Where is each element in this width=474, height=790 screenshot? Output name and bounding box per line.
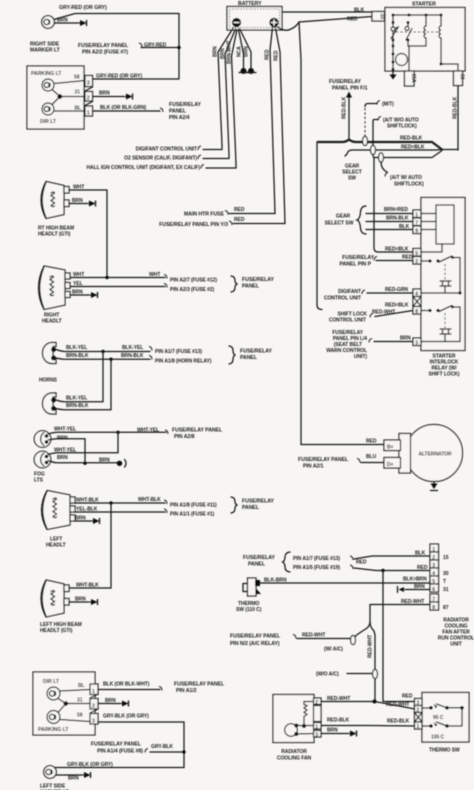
wire dir lamp to pin 1 <box>60 690 90 692</box>
wire relay pin 3 row <box>421 341 460 343</box>
wire RED-GRN to pin 4 <box>367 287 413 293</box>
wire YEL right headlight <box>70 281 167 288</box>
svg-text:1: 1 <box>92 689 95 695</box>
svg-text:GRY-BLK: GRY-BLK <box>151 744 173 750</box>
svg-text:BRN: BRN <box>99 458 110 464</box>
label starter interlock relay <box>428 354 459 378</box>
svg-text:30: 30 <box>443 571 449 577</box>
connector stub BRN <box>247 68 257 74</box>
svg-text:BRN-BLK: BRN-BLK <box>121 353 144 359</box>
wire WHT-BLK left headlight <box>75 497 167 504</box>
wire GRY-RED to pin A2/2 <box>141 43 179 49</box>
svg-text:BLK-BRN: BLK-BRN <box>264 578 287 584</box>
alternator <box>399 425 463 482</box>
svg-text:GRY-RED (OR GRY): GRY-RED (OR GRY) <box>96 74 142 80</box>
wire BRN-WHT battery neg 3 <box>227 30 238 164</box>
svg-text:BLU: BLU <box>366 454 377 460</box>
pin 3 connector <box>74 75 93 87</box>
label hall ign control unit <box>86 165 204 172</box>
svg-text:RED: RED <box>274 50 280 61</box>
svg-text:RED=BLK: RED=BLK <box>401 145 425 151</box>
label fuse/relay panel pin A2/1 <box>298 457 360 470</box>
node diamond junction <box>57 94 63 100</box>
wire GRY-BLK pin3 <box>55 714 184 768</box>
wire YEL-BLK left headlight <box>75 507 167 514</box>
svg-text:1: 1 <box>315 724 318 730</box>
thermo switch box <box>422 693 469 743</box>
wire to relay pin 8 via left drop <box>317 142 322 310</box>
battery positive terminal <box>269 18 278 27</box>
wire parking lamp to pin 3 <box>54 81 85 84</box>
svg-text:PIN A2/4: PIN A2/4 <box>169 115 190 121</box>
svg-text:O2 SENSOR (CALIF, DIGIFANT): O2 SENSOR (CALIF, DIGIFANT) <box>124 156 197 162</box>
svg-text:T: T <box>443 579 446 585</box>
svg-text:FUSE/RELAY: FUSE/RELAY <box>242 277 274 283</box>
svg-text:3: 3 <box>415 341 418 347</box>
svg-text:BRN-WHT: BRN-WHT <box>227 40 233 64</box>
label fuse/relay panel mid <box>243 555 275 568</box>
label fuse/relay panel horns <box>240 349 272 362</box>
svg-text:FUSE/RELAY PANEL: FUSE/RELAY PANEL <box>91 742 142 748</box>
ground fog lights <box>117 460 126 468</box>
label fuse/relay panel pin A2/2 <box>78 43 142 56</box>
svg-text:GRY-RED (OR GRY): GRY-RED (OR GRY) <box>59 5 107 11</box>
wire BLK pin1 to fuse panel A2/4 <box>93 105 164 112</box>
svg-text:PANEL PIN P: PANEL PIN P <box>339 262 371 268</box>
wire BLK-YEL horn2 <box>56 352 103 402</box>
lamp dir LT <box>42 103 54 115</box>
wire lamps common to pin 2 <box>52 90 85 105</box>
pin blank fan <box>314 706 322 722</box>
svg-text:PANEL: PANEL <box>242 505 260 511</box>
wire BRN left high beam <box>69 597 88 603</box>
wire RED battery pos to main htr fuse <box>265 28 276 214</box>
wire BRN left headlight <box>75 516 91 522</box>
wire BRN to O2 sensor <box>203 154 229 159</box>
wire GRY-RED pin3 <box>93 74 180 80</box>
svg-text:PIN A1/8 (HORN RELAY): PIN A1/8 (HORN RELAY) <box>155 359 212 365</box>
svg-text:LTS: LTS <box>34 478 44 484</box>
label shift lock control unit <box>329 312 373 324</box>
svg-text:BRN: BRN <box>57 455 68 461</box>
pin 2 fan <box>304 698 321 706</box>
wire starter dashed link <box>396 31 438 33</box>
connector oval W/O A/C <box>373 669 378 678</box>
svg-text:FUSE/RELAY: FUSE/RELAY <box>243 555 275 561</box>
box parking/dir light unit <box>27 66 84 129</box>
wire BRN battery neg 1 <box>213 28 234 146</box>
svg-text:RED-WHT: RED-WHT <box>327 696 350 702</box>
wire BRN-BLK to pin 7 <box>366 216 413 222</box>
svg-text:NCA: NCA <box>237 46 243 57</box>
wire curve to A/T w/ shiftlock <box>381 162 387 172</box>
svg-text:RED-GRN: RED-GRN <box>385 287 408 293</box>
motor starter <box>396 54 408 66</box>
pin 50 starter <box>454 71 465 86</box>
label fuse/relay panel headlights <box>242 277 274 290</box>
thermo switch 110C <box>243 578 261 596</box>
svg-text:RED: RED <box>234 207 245 213</box>
ground pin2 bottom <box>118 701 129 707</box>
wire RED-BLK starter 50 down <box>453 86 459 151</box>
contact solenoid main <box>391 27 399 39</box>
svg-text:1: 1 <box>87 111 90 117</box>
svg-text:BRN: BRN <box>105 698 116 704</box>
wire WHT rt high beam <box>69 185 107 278</box>
svg-text:BLK: BLK <box>399 224 410 230</box>
svg-text:RED=BLK: RED=BLK <box>385 247 409 253</box>
wire RED-WHT fan pin2 to thermo pin2 <box>321 696 415 709</box>
wire BRN battery neg 5 <box>240 29 252 69</box>
wire GRY-BLK to pin A1/4 <box>150 744 184 752</box>
svg-text:1: 1 <box>417 724 420 730</box>
svg-text:BRN: BRN <box>400 336 411 342</box>
svg-text:BRN: BRN <box>213 46 219 57</box>
radiator cooling fan box <box>273 695 314 743</box>
svg-text:6: 6 <box>432 587 435 593</box>
label fuse/relay panel pin L/4 seat belt <box>326 330 372 360</box>
svg-text:PIN A1/7 (FUSE #13): PIN A1/7 (FUSE #13) <box>155 349 202 355</box>
wire RED-WHT A/C relay <box>297 633 350 639</box>
svg-text:(W/O A/C): (W/O A/C) <box>316 672 339 678</box>
node diamond junction bottom <box>63 701 69 707</box>
svg-text:BLK (OR BLK-WHT): BLK (OR BLK-WHT) <box>103 682 150 688</box>
wire parking lamp to pin 3 <box>60 720 90 722</box>
label fuse/relay panel pin A1/4 <box>91 742 148 755</box>
pin 9 relay <box>413 226 436 235</box>
wire RED-WHT split branches <box>354 622 371 639</box>
svg-text:SHIFTLOCK): SHIFTLOCK) <box>394 182 424 188</box>
svg-text:WHT-BLK: WHT-BLK <box>138 497 161 503</box>
svg-text:15A: 15A <box>410 74 416 83</box>
wire RED to main htr fuse <box>229 207 275 214</box>
pin 7 relay <box>413 218 436 227</box>
label pin A1/5 fan <box>293 565 353 571</box>
svg-text:BRN: BRN <box>99 91 110 97</box>
pin 3 thermo <box>415 699 423 707</box>
svg-text:FUSE/RELAY: FUSE/RELAY <box>342 255 374 261</box>
pin 2 bottom connector <box>77 698 98 710</box>
svg-text:PIN A1/4 (FUSE #8): PIN A1/4 (FUSE #8) <box>97 749 143 755</box>
wire WHT right headlight <box>70 272 167 279</box>
svg-text:2: 2 <box>315 700 318 706</box>
ground rt high beam <box>85 201 96 207</box>
wire BRN-BLK horn2 <box>56 359 111 410</box>
ground control unit <box>398 587 405 593</box>
ground fan <box>346 731 357 737</box>
wire BRN marker light to ground <box>54 18 78 24</box>
wire BRN to pin 3 <box>374 336 413 342</box>
pin 4 relay <box>413 289 421 298</box>
brace fuse/relay panel left headlight <box>231 497 238 513</box>
svg-text:PANEL: PANEL <box>169 109 187 115</box>
svg-text:FUSE/RELAY PANEL: FUSE/RELAY PANEL <box>230 634 281 640</box>
svg-text:PIN A2/3 (FUSE #2): PIN A2/3 (FUSE #2) <box>170 287 215 293</box>
ground starter <box>390 71 397 80</box>
svg-text:RADIATOR: RADIATOR <box>281 749 307 755</box>
pin 1 connector <box>75 106 93 117</box>
svg-text:95 C: 95 C <box>433 715 444 721</box>
pin 1 fan <box>314 723 322 731</box>
wire BRN left marker to ground <box>56 775 82 782</box>
wire RED-WHT slant to pin 8 <box>372 310 413 317</box>
connector oval A/T w/o <box>371 145 376 154</box>
svg-text:PANEL PIN F/1: PANEL PIN F/1 <box>332 86 368 92</box>
svg-text:3: 3 <box>87 81 90 87</box>
svg-text:BLK=BRN: BLK=BRN <box>403 577 427 583</box>
label fuse/relay panel pin F/1 <box>329 79 368 92</box>
svg-text:HEADLT: HEADLT <box>46 543 66 549</box>
label fuse/relay panel pin Y/3 <box>159 221 232 228</box>
svg-text:PANEL: PANEL <box>242 284 260 290</box>
svg-text:RED=BLK: RED=BLK <box>385 303 409 309</box>
svg-text:DIR LT: DIR LT <box>43 679 60 685</box>
svg-text:GRY-BLK (OR GRY): GRY-BLK (OR GRY) <box>67 762 113 768</box>
relay inner gear switch box <box>436 205 454 244</box>
relay coil 2 <box>440 313 451 342</box>
connector oval W/ A/C <box>351 635 356 644</box>
svg-text:HEADLT (GTI): HEADLT (GTI) <box>38 232 71 238</box>
label fuse/relay panel pin P <box>339 255 377 268</box>
svg-text:(W/ A/C): (W/ A/C) <box>324 647 343 653</box>
svg-text:31: 31 <box>77 698 83 704</box>
thermo contact 95C <box>422 704 464 726</box>
svg-text:FUSE/RELAY PANEL: FUSE/RELAY PANEL <box>174 682 225 688</box>
svg-text:RED: RED <box>234 217 245 223</box>
connector oval M/T <box>363 136 368 145</box>
wire BRN to digifant <box>203 145 222 150</box>
svg-text:YEL-BLK: YEL-BLK <box>76 507 98 513</box>
svg-text:RED-BLK: RED-BLK <box>327 718 350 724</box>
svg-text:31: 31 <box>75 90 81 96</box>
svg-text:DIR LT: DIR LT <box>40 119 57 125</box>
svg-text:RED: RED <box>402 694 413 700</box>
svg-text:MAIN HTR FUSE: MAIN HTR FUSE <box>184 212 225 218</box>
svg-text:FUSE/RELAY: FUSE/RELAY <box>169 102 201 108</box>
horn 1 <box>43 343 57 364</box>
terminal D+ <box>384 458 401 469</box>
pin 1 thermo <box>415 722 423 730</box>
svg-text:(M/T): (M/T) <box>382 102 394 108</box>
wire starter top bus <box>393 14 443 17</box>
svg-text:GRY-BLK (OR GRY): GRY-BLK (OR GRY) <box>103 714 149 720</box>
svg-text:2: 2 <box>87 96 90 102</box>
svg-text:RED-BLK: RED-BLK <box>400 136 423 142</box>
lamp right side marker LT <box>42 16 55 29</box>
svg-text:15: 15 <box>443 555 449 561</box>
svg-text:PIN A2/8: PIN A2/8 <box>174 434 195 440</box>
svg-text:THERMO SW: THERMO SW <box>429 748 460 754</box>
wire lamps common to pin 2 <box>58 699 90 713</box>
label (M/T) <box>377 101 394 108</box>
wire RED battery to alternator B+ <box>299 22 384 445</box>
wire BRN rt high beam to ground <box>69 198 87 204</box>
svg-text:RED-BLK: RED-BLK <box>387 719 410 725</box>
relay contact row 2 <box>421 306 460 342</box>
svg-text:2: 2 <box>92 704 95 710</box>
svg-text:PARKING LT: PARKING LT <box>38 727 69 733</box>
svg-text:HEADLT: HEADLT <box>42 319 62 325</box>
svg-text:SELECT SW: SELECT SW <box>325 221 354 227</box>
svg-text:WHT: WHT <box>73 272 84 278</box>
label fuse/relay panel pin A2/4 <box>169 102 201 121</box>
svg-text:FUSE/RELAY: FUSE/RELAY <box>240 349 272 355</box>
label main htr fuse <box>184 211 228 218</box>
svg-text:PIN A2/7 (FUSE #12): PIN A2/7 (FUSE #12) <box>170 278 217 284</box>
svg-text:BRN-BLK: BRN-BLK <box>386 216 409 222</box>
svg-text:PIN A1/7 (FUSE #13): PIN A1/7 (FUSE #13) <box>293 556 340 562</box>
wire BRN-BLK horn1 <box>56 353 152 360</box>
wire RED-BLK fan pin1 to thermo pin1 <box>321 718 415 727</box>
pin 15A starter <box>405 46 417 86</box>
wire RED-BLK bus 1 <box>317 136 442 150</box>
label fuse/relay panel pin N/2 <box>230 634 296 648</box>
wire RED battery pos to pin Y/3 <box>274 28 286 224</box>
horn 2 <box>43 393 57 414</box>
node junction WHT-BLK <box>109 501 112 504</box>
svg-text:RED: RED <box>265 49 271 60</box>
pin 3 bottom connector <box>77 713 98 725</box>
svg-text:PIN A1/8 (FUSE #11): PIN A1/8 (FUSE #11) <box>170 503 217 509</box>
wire BRN pin2 to ground <box>98 698 120 704</box>
svg-text:PIN A1/2: PIN A1/2 <box>176 688 197 694</box>
svg-text:3: 3 <box>92 719 95 725</box>
wire BRN-WHT to hall ign <box>206 163 236 168</box>
svg-text:BLK (OR BLK-GRN): BLK (OR BLK-GRN) <box>100 105 147 111</box>
svg-text:PIN A1/5 (FUSE #19): PIN A1/5 (FUSE #19) <box>293 565 340 571</box>
pin 2 connector <box>75 90 93 102</box>
wire BRN-RED to pin 1 <box>366 207 413 214</box>
coil hold-in winding <box>439 15 458 71</box>
svg-text:BLK-YEL: BLK-YEL <box>122 345 143 351</box>
svg-text:RED-WHT: RED-WHT <box>302 633 325 639</box>
svg-text:BRN: BRN <box>72 198 83 204</box>
wire WHT-YEL fog2 <box>48 432 118 454</box>
pin 5 relay <box>413 244 442 257</box>
wire dashed M/T drop <box>365 104 377 137</box>
ground left headlight <box>89 518 100 524</box>
label O2 sensor <box>124 155 201 162</box>
svg-text:FUSE/RELAY: FUSE/RELAY <box>242 499 274 505</box>
svg-text:YEL: YEL <box>73 281 83 287</box>
wire BLK to pin 9 <box>366 224 413 230</box>
svg-text:RED: RED <box>347 17 358 23</box>
svg-text:BRN: BRN <box>327 728 338 734</box>
svg-text:FUSE/RELAY: FUSE/RELAY <box>329 79 361 85</box>
label pin A1/7 fan <box>293 556 353 562</box>
svg-text:2: 2 <box>415 259 418 265</box>
motor radiator fan <box>285 724 299 737</box>
svg-text:PARKING LT: PARKING LT <box>31 71 62 77</box>
svg-text:COOLING FAN: COOLING FAN <box>277 756 312 762</box>
svg-text:8: 8 <box>432 605 435 611</box>
svg-text:BLK: BLK <box>415 551 426 557</box>
label gear select sw lower <box>325 214 354 227</box>
connector slash marks <box>85 87 93 106</box>
svg-text:50: 50 <box>459 74 465 80</box>
wire RED battery to starter 30 <box>277 17 373 31</box>
wire drop to line3 corner <box>373 155 374 158</box>
svg-text:PANEL: PANEL <box>248 562 266 568</box>
fog light 2 <box>34 451 51 468</box>
headlamp left headlight <box>42 491 76 530</box>
svg-text:(A/T W/ AUTO: (A/T W/ AUTO <box>390 175 422 181</box>
ground left high beam <box>87 599 98 605</box>
wire BLK battery to starter 30 <box>282 8 372 14</box>
svg-text:58: 58 <box>77 713 83 719</box>
svg-text:FUSE/RELAY PANEL: FUSE/RELAY PANEL <box>78 43 129 49</box>
svg-text:SW (110 C): SW (110 C) <box>236 607 262 613</box>
wire NCA battery neg 4 <box>237 30 244 69</box>
svg-text:RED-WHT: RED-WHT <box>372 310 395 316</box>
label gear select sw upper <box>342 164 361 182</box>
ground right headlight <box>87 292 98 298</box>
pin 8 relay <box>413 307 421 316</box>
node junction GRY-BLK <box>182 750 185 753</box>
wire BRN pin2 to ground <box>93 91 125 97</box>
svg-text:GRY-RED: GRY-RED <box>144 43 167 49</box>
svg-text:ALTERNATOR: ALTERNATOR <box>418 452 452 458</box>
svg-text:3: 3 <box>315 732 318 738</box>
svg-text:WHT-YEL: WHT-YEL <box>137 428 159 434</box>
label fuse/relay panel pin A1/2 <box>174 682 225 695</box>
wire BRN right headlight <box>70 290 89 296</box>
relay starter interlock box <box>421 198 465 351</box>
svg-text:HEADLT (GTI): HEADLT (GTI) <box>40 628 73 634</box>
thermo contact 105C <box>422 722 462 741</box>
pin 3 relay <box>413 338 421 347</box>
wire fan internal pin3 <box>296 733 313 736</box>
wire BLK-YEL horn1 <box>56 345 152 352</box>
svg-text:DIGIFANT CONTROL UNIT: DIGIFANT CONTROL UNIT <box>136 147 197 153</box>
svg-text:RED: RED <box>417 565 428 571</box>
svg-text:RED-BLK: RED-BLK <box>453 96 459 119</box>
svg-text:87: 87 <box>443 605 449 611</box>
svg-text:UNIT): UNIT) <box>354 354 367 360</box>
svg-text:BL: BL <box>75 106 82 112</box>
svg-text:SHIFT LOCK): SHIFT LOCK) <box>428 372 459 378</box>
label (A/T W/O AUTO SHIFTLOCK) <box>378 117 419 130</box>
svg-text:WHT: WHT <box>73 185 84 191</box>
battery <box>227 1 282 30</box>
svg-text:PIN A1/1 (FUSE #1): PIN A1/1 (FUSE #1) <box>170 512 215 518</box>
svg-text:RED: RED <box>366 439 377 445</box>
wire A/T shiftlock line 3 <box>374 151 442 158</box>
svg-text:MARKER LT: MARKER LT <box>30 48 61 54</box>
svg-text:105 C: 105 C <box>431 735 445 741</box>
brace gear select sw <box>357 206 366 234</box>
svg-text:WHT-BLK: WHT-BLK <box>76 583 99 589</box>
pin 2 relay <box>413 257 421 266</box>
ground pin2 <box>122 94 133 100</box>
svg-text:RED-WHT: RED-WHT <box>368 635 374 658</box>
wire RED-WHT down to fan junction <box>368 635 376 700</box>
ground marker light <box>76 20 87 26</box>
svg-text:FUSE/RELAY PANEL PIN Y/3: FUSE/RELAY PANEL PIN Y/3 <box>159 222 228 228</box>
svg-text:WHT-YEL: WHT-YEL <box>54 448 76 454</box>
wire dir lamp to pin 1 <box>54 110 85 112</box>
svg-text:DIGIFANT: DIGIFANT <box>338 289 361 295</box>
headlamp left high beam <box>41 580 69 617</box>
wire RED-BLK to pin 5 <box>374 158 413 253</box>
lamp dir LT bottom <box>47 687 60 700</box>
ground alternator <box>431 482 438 491</box>
relay coil 1 <box>440 264 451 293</box>
connector oval A/T w/ shiftlock <box>379 153 384 162</box>
svg-text:SHIFTLOCK): SHIFTLOCK) <box>387 124 417 130</box>
svg-text:BRN: BRN <box>414 584 425 590</box>
svg-text:RED-WHT: RED-WHT <box>386 702 409 708</box>
